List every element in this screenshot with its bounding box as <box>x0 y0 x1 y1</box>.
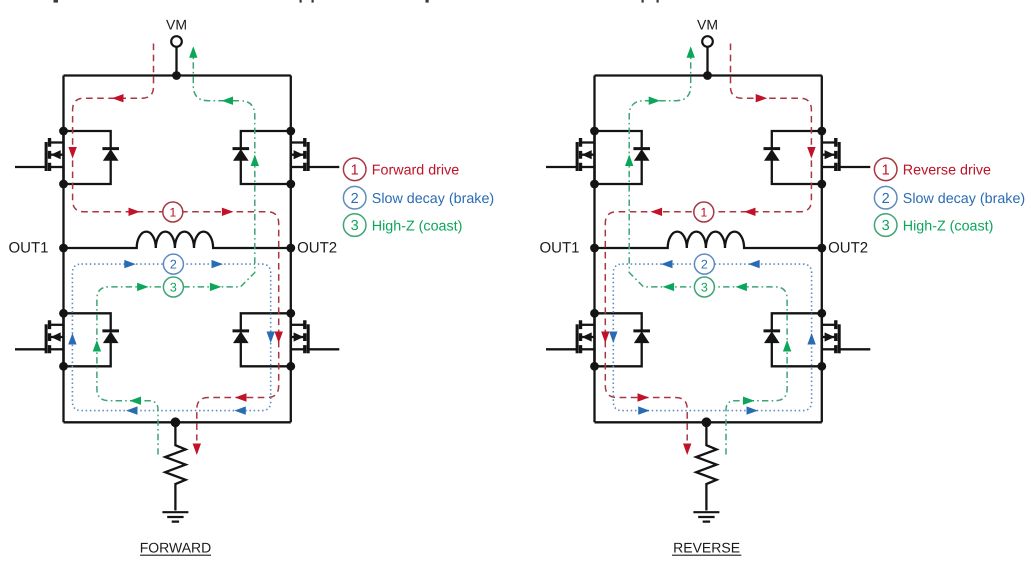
node OUT2 dot (forward) <box>286 244 295 253</box>
node sense junction dot (reverse) <box>702 417 712 427</box>
arrowheads of forward high-Z path <box>93 46 259 405</box>
legend marker 2 <box>874 186 897 209</box>
wire VM stem (forward) <box>175 47 177 75</box>
svg-text:2: 2 <box>351 191 359 207</box>
motor winding inductor (forward) <box>64 232 291 248</box>
node sense junction dot (forward) <box>171 417 181 427</box>
svg-text:2: 2 <box>701 258 708 272</box>
svg-text:2: 2 <box>882 191 890 207</box>
motor winding inductor (reverse) <box>595 232 822 248</box>
wire reverse high-Z coast path 3 (green dash-dot) <box>629 48 787 455</box>
svg-text:High-Z (coast): High-Z (coast) <box>372 218 463 234</box>
node path marker 1 (forward) <box>163 202 183 222</box>
node OUT1 dot (reverse) <box>590 244 599 253</box>
arrowheads of reverse slow-decay loop <box>609 260 816 415</box>
transistor forward low-side right <box>291 313 340 366</box>
svg-text:REVERSE: REVERSE <box>673 539 740 555</box>
transistor forward high-side left <box>15 131 64 184</box>
ground symbol (forward) <box>162 512 188 521</box>
wire top rail (forward) <box>64 74 291 76</box>
transistor reverse low-side right <box>822 313 871 366</box>
svg-text:3: 3 <box>701 280 708 294</box>
transistor forward high-side right <box>291 131 340 184</box>
transistor reverse high-side right <box>822 131 871 184</box>
body diode of reverse high-side right <box>764 131 822 184</box>
svg-text:1: 1 <box>169 205 176 219</box>
node path marker 1 (reverse) <box>694 202 714 222</box>
VM terminal circle (forward) <box>171 36 182 47</box>
drain node dot of reverse low-side left <box>590 309 599 318</box>
transistor reverse low-side left <box>546 313 595 366</box>
arrowheads of reverse drive path <box>601 94 816 455</box>
drain node dot of forward high-side right <box>286 127 295 136</box>
sense resistor (reverse) <box>696 422 716 510</box>
node path marker 3 (reverse) <box>694 277 714 297</box>
svg-text:OUT1: OUT1 <box>539 240 579 257</box>
node path marker 2 (forward) <box>163 254 183 274</box>
node VM junction dot (reverse) <box>703 71 712 80</box>
legend marker 2 <box>343 186 366 209</box>
svg-text:VM: VM <box>166 17 187 33</box>
transistor forward low-side left <box>15 313 64 366</box>
svg-text:OUT2: OUT2 <box>297 240 337 257</box>
drain node dot of forward high-side left <box>59 127 68 136</box>
body diode of forward high-side right <box>233 131 291 184</box>
svg-text:Slow decay (brake): Slow decay (brake) <box>903 191 1025 207</box>
wire left rail (reverse) <box>593 76 595 423</box>
source node dot of reverse high-side right <box>817 180 826 189</box>
source node dot of forward low-side left <box>59 362 68 371</box>
wire right rail (forward) <box>290 76 292 423</box>
svg-text:VM: VM <box>697 17 718 33</box>
body diode of reverse high-side left <box>595 131 651 184</box>
svg-text:Forward drive: Forward drive <box>372 163 459 179</box>
body diode of reverse low-side right <box>764 313 822 366</box>
body diode of forward low-side left <box>64 313 120 366</box>
source node dot of reverse high-side left <box>590 180 599 189</box>
svg-text:FORWARD: FORWARD <box>140 539 212 555</box>
cropped text remnants at top edge <box>54 0 659 3</box>
legend marker 3 <box>343 214 366 237</box>
source node dot of reverse low-side left <box>590 362 599 371</box>
wire VM stem (reverse) <box>706 47 708 75</box>
svg-text:3: 3 <box>170 280 177 294</box>
body diode of reverse low-side left <box>595 313 651 366</box>
wire left rail (forward) <box>62 76 64 423</box>
drain node dot of forward low-side right <box>286 309 295 318</box>
source node dot of forward high-side right <box>286 180 295 189</box>
svg-text:2: 2 <box>170 258 177 272</box>
arrowheads of reverse high-Z path <box>625 46 791 405</box>
wire forward slow-decay current loop 2 (blue dotted) <box>72 264 270 411</box>
wire top rail (reverse) <box>595 74 822 76</box>
node path marker 3 (forward) <box>163 277 183 297</box>
body diode of forward high-side left <box>64 131 120 184</box>
transistor reverse high-side left <box>546 131 595 184</box>
legend marker 3 <box>874 214 897 237</box>
svg-text:High-Z (coast): High-Z (coast) <box>903 218 994 234</box>
wire bottom rail (forward) <box>64 421 291 423</box>
svg-text:1: 1 <box>700 205 707 219</box>
svg-text:3: 3 <box>351 218 359 234</box>
drain node dot of forward low-side left <box>59 309 68 318</box>
arrowheads of forward drive path <box>68 94 283 455</box>
sense resistor (forward) <box>165 422 185 510</box>
wire reverse drive current path 1 (red dashed) <box>605 44 811 441</box>
body diode of forward low-side right <box>233 313 291 366</box>
drain node dot of reverse low-side right <box>817 309 826 318</box>
source node dot of forward low-side right <box>286 362 295 371</box>
wire forward drive current path 1 (red dashed) <box>73 44 279 441</box>
drain node dot of reverse high-side left <box>590 127 599 136</box>
svg-text:Reverse drive: Reverse drive <box>903 163 991 179</box>
arrowheads of forward slow-decay loop <box>68 260 275 415</box>
wire right rail (reverse) <box>821 76 823 423</box>
svg-text:1: 1 <box>882 162 890 178</box>
svg-text:Slow decay (brake): Slow decay (brake) <box>372 191 494 207</box>
wire forward high-Z coast path 3 (green dash-dot) <box>97 48 255 455</box>
svg-text:OUT2: OUT2 <box>828 240 868 257</box>
wire reverse slow-decay current loop 2 (blue dotted) <box>613 264 811 411</box>
wire bottom rail (reverse) <box>595 421 822 423</box>
node OUT1 dot (forward) <box>59 244 68 253</box>
legend marker 1 <box>343 158 366 181</box>
ground symbol (reverse) <box>693 512 719 521</box>
VM terminal circle (reverse) <box>702 36 713 47</box>
legend marker 1 <box>874 158 897 181</box>
svg-text:OUT1: OUT1 <box>8 240 48 257</box>
svg-text:1: 1 <box>351 162 359 178</box>
source node dot of reverse low-side right <box>817 362 826 371</box>
node OUT2 dot (reverse) <box>817 244 826 253</box>
node VM junction dot (forward) <box>172 71 181 80</box>
node path marker 2 (reverse) <box>694 254 714 274</box>
svg-text:3: 3 <box>882 218 890 234</box>
drain node dot of reverse high-side right <box>817 127 826 136</box>
source node dot of forward high-side left <box>59 180 68 189</box>
